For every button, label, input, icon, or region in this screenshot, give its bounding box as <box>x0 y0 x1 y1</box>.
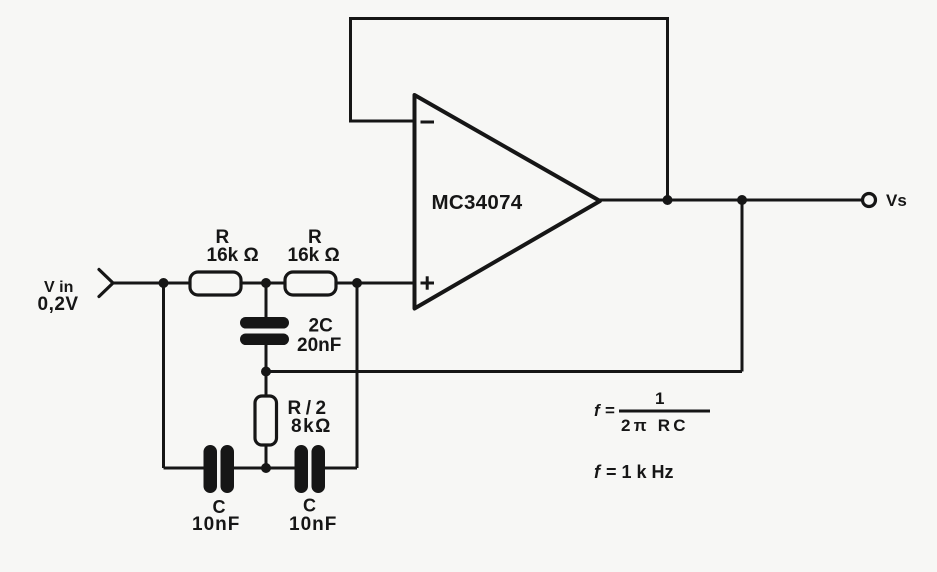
label C (first) <box>213 497 226 517</box>
wire: right feedback vertical from output node down <box>741 200 744 372</box>
junction node at output and right feedback vertical <box>737 195 747 205</box>
label 10nF (first) <box>192 514 240 535</box>
label 16kΩ (second) <box>288 245 340 266</box>
wire: bottom rail right segment <box>323 467 357 470</box>
resistor R (second 16k) <box>285 272 336 295</box>
op-amp inverting input pin (-) <box>421 121 435 124</box>
wire: input line from Vin to op-amp + input <box>113 282 414 285</box>
label R (first) <box>216 227 230 248</box>
svg-text:1: 1 <box>655 389 664 408</box>
capacitor C left plate (first 10nF) <box>204 445 218 493</box>
junction node at input and right vertical <box>352 278 362 288</box>
svg-text:8kΩ: 8kΩ <box>291 416 332 437</box>
svg-text:Vs: Vs <box>886 191 907 210</box>
wire: middle vertical from R/2 to bottom rail <box>265 444 268 468</box>
op-amp U1 MC34074 <box>415 95 601 309</box>
capacitor C right plate (first 10nF) <box>221 445 235 493</box>
wire: left vertical from input node down to bottom rail <box>162 283 165 468</box>
capacitor 2C top plate <box>240 317 289 329</box>
svg-text:0,2V: 0,2V <box>38 294 79 315</box>
junction node below 2C capacitor <box>261 367 271 377</box>
svg-text:2π RC: 2π RC <box>621 416 689 435</box>
wire: bottom rail left segment <box>164 467 206 470</box>
svg-text:20nF: 20nF <box>297 335 341 356</box>
junction node at input and left vertical <box>159 278 169 288</box>
label 20nF <box>297 335 341 356</box>
wire: right vertical from input node down to bottom rail <box>356 283 359 468</box>
label R/2 <box>288 398 331 419</box>
svg-text:=: = <box>605 401 615 420</box>
svg-text:C: C <box>303 496 316 516</box>
label MC34074 <box>432 191 523 214</box>
wire: middle vertical from input node to 2C capacitor <box>265 283 268 318</box>
formula fraction bar <box>619 410 710 413</box>
label 10nF (second) <box>289 514 337 535</box>
wire: middle vertical from 2C capacitor to node below <box>265 344 268 397</box>
label Vs <box>886 191 907 210</box>
svg-text:= 1 k Hz: = 1 k Hz <box>606 462 674 482</box>
label Vin <box>44 279 73 296</box>
junction node at output and feedback vertical <box>663 195 673 205</box>
output terminal Vs <box>863 194 876 207</box>
label 0,2V <box>38 294 79 315</box>
junction node at R/2 and bottom rail <box>261 463 271 473</box>
wire: output line from op-amp to Vs terminal <box>598 199 862 202</box>
formula numerator 1 <box>655 389 664 408</box>
svg-text:16k Ω: 16k Ω <box>207 245 259 266</box>
svg-text:10nF: 10nF <box>192 514 240 535</box>
formula denominator 2πRC <box>621 416 689 435</box>
wire: bottom rail middle segment <box>232 467 296 470</box>
svg-text:MC34074: MC34074 <box>432 191 523 214</box>
label C (second) <box>303 496 316 516</box>
label 16kΩ (first) <box>207 245 259 266</box>
wire: feedback from inverting input to output (left and top segments) <box>351 19 668 201</box>
label R (second) <box>308 227 322 248</box>
svg-text:16k Ω: 16k Ω <box>288 245 340 266</box>
svg-text:2C: 2C <box>309 316 334 337</box>
capacitor C right plate (second 10nF) <box>312 445 326 493</box>
label 8kΩ <box>291 416 332 437</box>
formula f = 1/(2πRC) : f = <box>594 401 615 420</box>
wire: feedback rail from node below 2C to output feedback vertical <box>266 370 742 373</box>
resistor R (first 16k) <box>190 272 241 295</box>
svg-text:10nF: 10nF <box>289 514 337 535</box>
label 2C <box>309 316 334 337</box>
junction node between R resistors <box>261 278 271 288</box>
capacitor C left plate (second 10nF) <box>295 445 309 493</box>
formula f = 1kHz <box>594 462 674 482</box>
op-amp non-inverting input pin (+) <box>421 276 435 289</box>
input terminal chevron (Vin) <box>99 270 113 297</box>
resistor R/2 (8k) <box>255 396 277 445</box>
capacitor 2C bottom plate <box>240 334 289 346</box>
